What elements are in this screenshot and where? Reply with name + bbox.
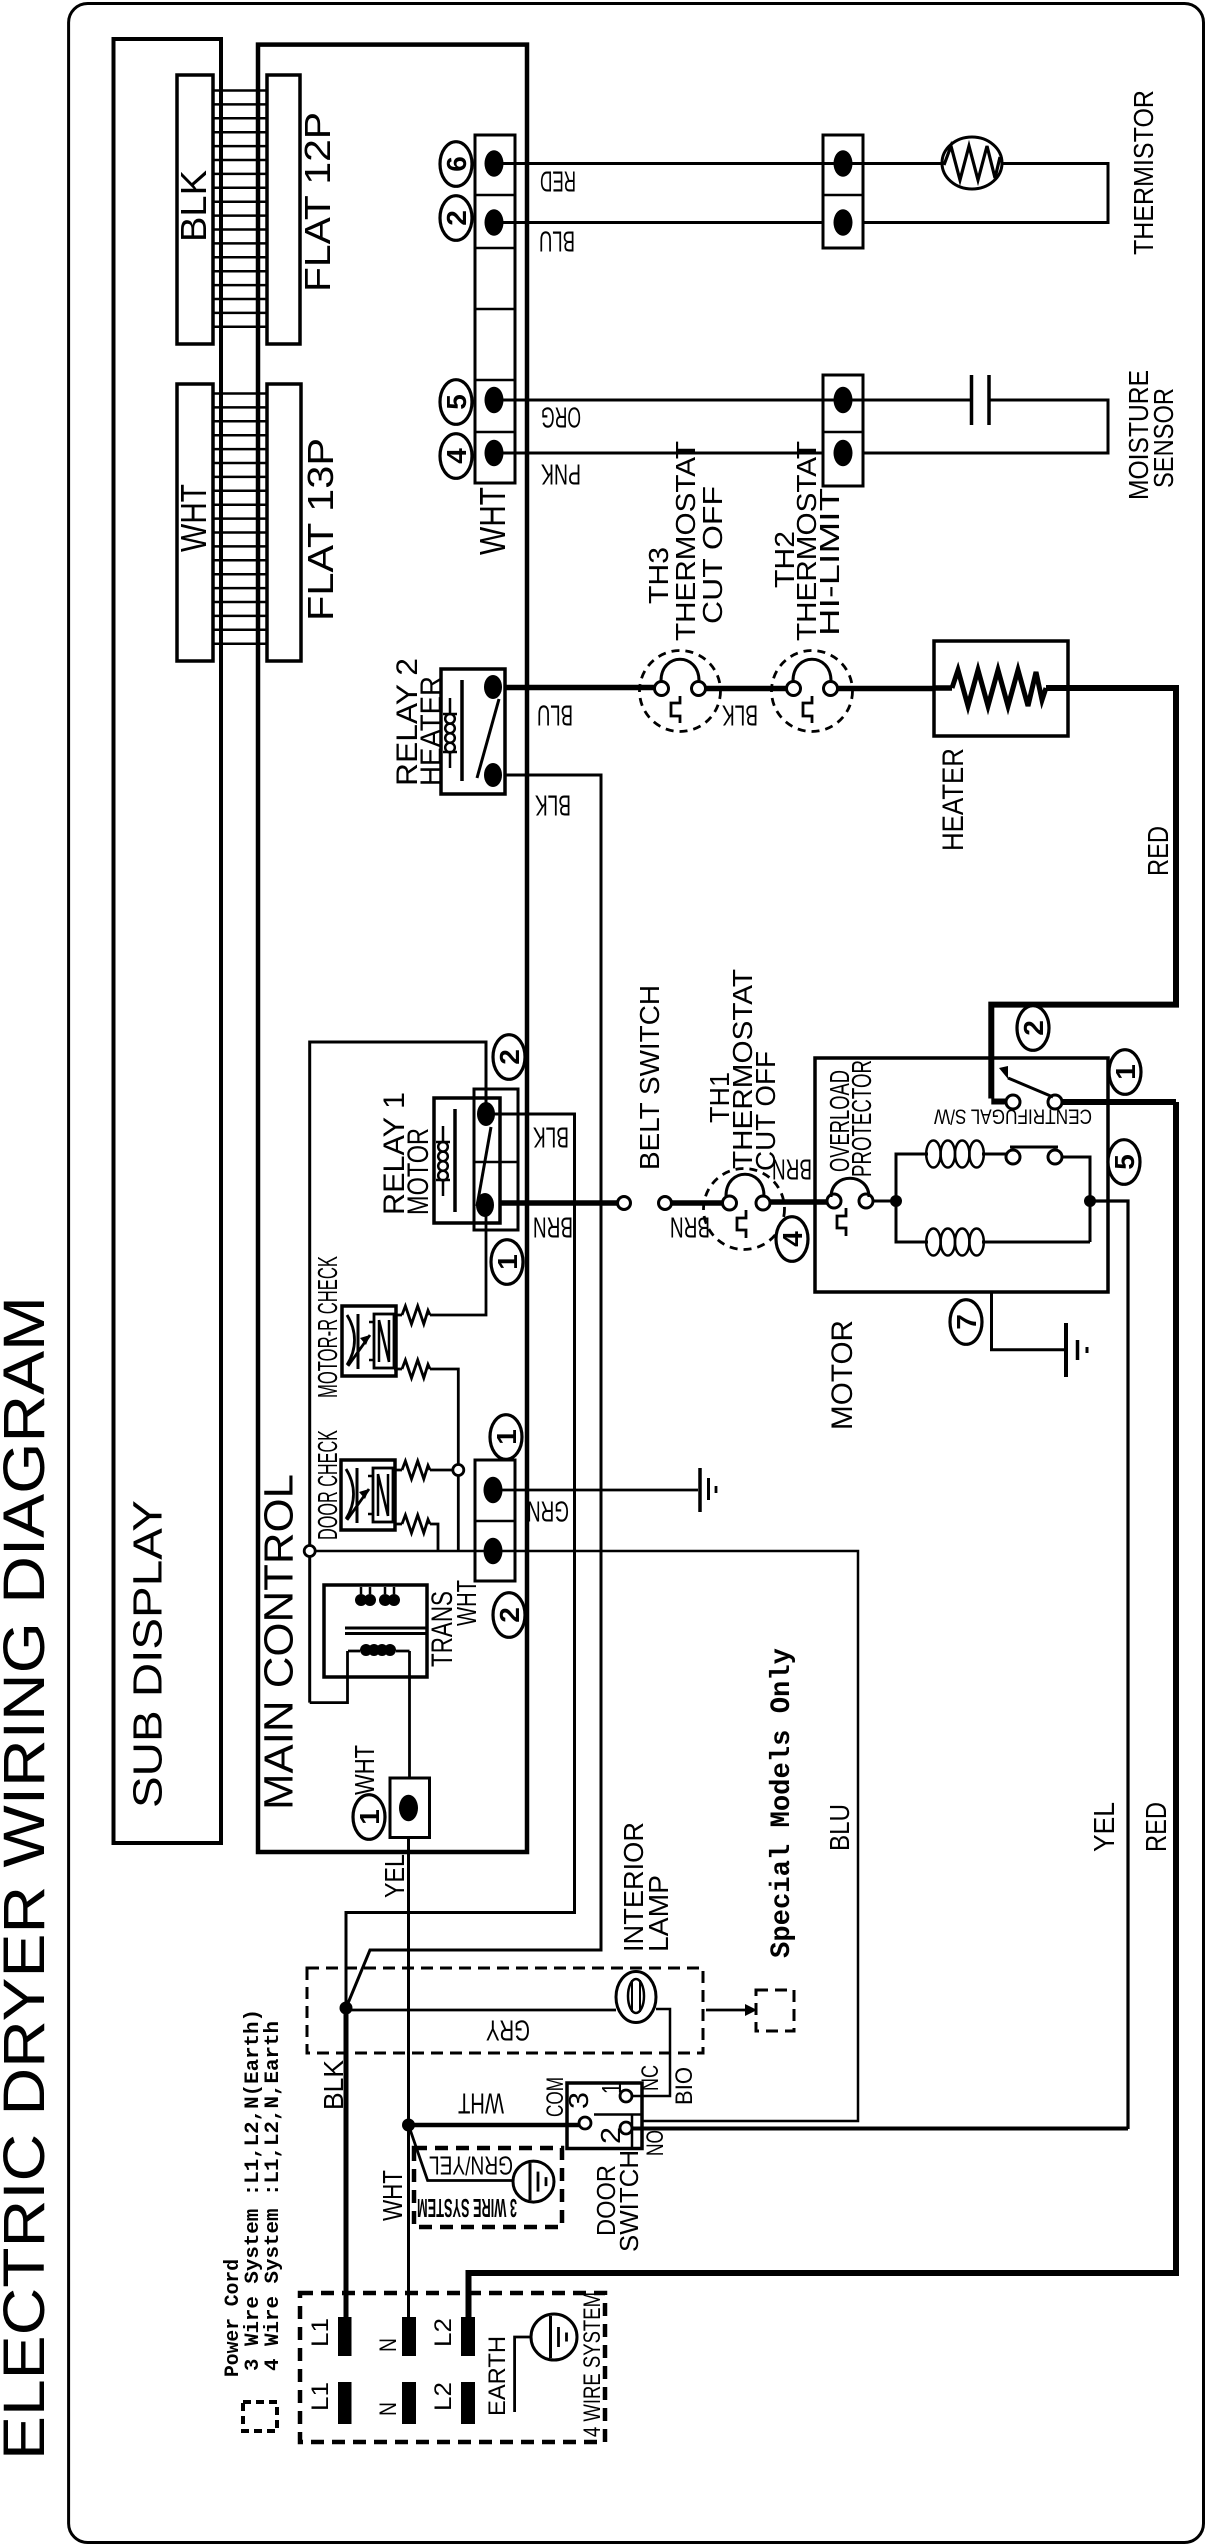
svg-text:HEATER: HEATER [937, 748, 970, 851]
svg-text:2: 2 [441, 210, 472, 226]
interior lamp INTERIOR LAMP [616, 1972, 656, 2023]
svg-text:BLK: BLK [173, 170, 214, 242]
connector GRN WHT strip [475, 1460, 515, 1581]
terminal N row1 [402, 2317, 416, 2356]
earth symbol 4 wire [531, 2314, 577, 2360]
svg-text:WHT: WHT [173, 484, 214, 552]
svg-text:TRANS: TRANS [426, 1591, 459, 1667]
svg-text:ELECTRIC DRYER WIRING DIAGRAM: ELECTRIC DRYER WIRING DIAGRAM [0, 1296, 57, 2460]
wire thermistor loop [863, 164, 1108, 223]
wire relay1 coil node up to main control bus [310, 1042, 486, 1703]
thermostat TH2 HI-LIMIT [772, 651, 853, 732]
relay RELAY 1 MOTOR [434, 1098, 500, 1223]
pin 1 motor [1109, 1050, 1141, 1095]
wire motor pin7 to ground [992, 1292, 1065, 1350]
MAIN CONTROL box [258, 45, 527, 1852]
thermostat TH1 CUT OFF [704, 1169, 785, 1250]
earth lead 4 wire [515, 2337, 531, 2412]
moisture sensor capacitor [972, 375, 990, 425]
svg-text:Special Models Only: Special Models Only [767, 1648, 798, 1958]
svg-text:L1: L1 [307, 2382, 334, 2411]
thermistor connector pair [823, 135, 863, 248]
svg-text:BLK: BLK [318, 2060, 349, 2110]
svg-text:RED: RED [1141, 1802, 1173, 1852]
svg-text:WHT: WHT [377, 2170, 408, 2221]
svg-text:BELT SWITCH: BELT SWITCH [634, 985, 665, 1170]
wire GRN to ground [500, 1489, 698, 1492]
svg-text:2: 2 [595, 2127, 626, 2144]
wire YEL WHT down to power cord N [407, 1838, 410, 2317]
svg-text:BLU: BLU [537, 699, 573, 731]
svg-text:2: 2 [1018, 1020, 1049, 1036]
wire BLK relay1 pin2 [346, 1114, 575, 2008]
SUB DISPLAY box [114, 39, 222, 1843]
motor start winding loop [896, 1201, 1090, 1242]
earth symbol 3 wire [513, 2161, 554, 2202]
pin 5 [440, 380, 472, 425]
svg-text:MOTOR: MOTOR [402, 1128, 435, 1215]
terminal L1 row1 [338, 2317, 352, 2356]
svg-text:NO: NO [642, 2130, 669, 2156]
3 wire system dashed box [414, 2148, 562, 2227]
pin 7 motor [950, 1300, 982, 1345]
svg-text:BRN: BRN [670, 1211, 710, 1243]
terminal L2 row2 [461, 2382, 475, 2424]
svg-text:RED: RED [540, 165, 576, 197]
transformer TRANS [324, 1585, 427, 1677]
pin 2 motor [1017, 1006, 1049, 1051]
svg-text:6: 6 [441, 156, 472, 172]
wire TH2 to heater [837, 686, 935, 692]
ground motor [1064, 1323, 1068, 1377]
connector WHT strip (main control edge) [475, 135, 515, 483]
svg-text:BLK: BLK [722, 699, 758, 731]
door switch DOOR SWITCH [567, 2083, 642, 2149]
wire GRN/YEL to earth (3 wire) [409, 2125, 514, 2181]
svg-text:N: N [375, 2402, 402, 2416]
wire BRN relay1 to belt switch [500, 1200, 617, 1206]
motor main winding loop [896, 1154, 1006, 1201]
pin 1 wht power [353, 1795, 385, 1840]
svg-text:WHT: WHT [458, 2087, 504, 2119]
svg-text:SUB DISPLAY: SUB DISPLAY [125, 1500, 171, 1808]
pin 4 TH1 [776, 1217, 808, 1262]
wire BRN belt switch to TH1 [672, 1200, 723, 1206]
wire trans secondary right to WHT pin1 [408, 1651, 411, 1778]
wire ORG pin5 to moisture sensor [502, 399, 971, 402]
svg-text:2: 2 [494, 1049, 525, 1065]
svg-text:BRN: BRN [533, 1211, 573, 1243]
centrifugal switch CENTRIFUGAL S/W [1006, 1095, 1020, 1109]
svg-text:COM: COM [542, 2077, 569, 2117]
svg-text:1: 1 [491, 1429, 522, 1445]
svg-text:BLU: BLU [539, 225, 575, 257]
terminal L1 row2 [338, 2382, 352, 2424]
svg-text:5: 5 [1109, 1154, 1140, 1170]
svg-text:SWITCH: SWITCH [614, 2150, 644, 2252]
svg-text:HEATER: HEATER [415, 676, 448, 786]
thermistor [942, 137, 1002, 189]
svg-text:HI-LIMIT: HI-LIMIT [814, 488, 845, 636]
wire BLU pin2 return [502, 221, 823, 224]
svg-text:1: 1 [596, 2083, 627, 2094]
svg-text:1: 1 [1110, 1064, 1141, 1080]
svg-text:L1: L1 [307, 2318, 334, 2347]
svg-text:1: 1 [492, 1254, 523, 1270]
svg-text:L2: L2 [430, 2318, 457, 2347]
overload protector [827, 1194, 841, 1208]
svg-text:THERMISTOR: THERMISTOR [1128, 90, 1159, 255]
wire trans secondary left [310, 1651, 348, 1703]
svg-text:MOTOR: MOTOR [826, 1320, 859, 1430]
node BLK junction dot [340, 2002, 353, 2015]
svg-text:FLAT 12P: FLAT 12P [297, 112, 338, 292]
wire RED down right side [469, 1102, 1177, 2317]
special models dashed box [756, 1990, 794, 2031]
svg-text:BIO: BIO [671, 2067, 698, 2105]
pin 6 [440, 142, 472, 187]
connector WHT pin1 box [390, 1778, 430, 1838]
svg-text:RED: RED [1143, 826, 1175, 876]
wire BLU special models net [315, 1551, 858, 2121]
relay1 connector strip [474, 1089, 518, 1230]
svg-text:4 WIRE SYSTEM: 4 WIRE SYSTEM [579, 2292, 606, 2437]
ribbon cable FLAT 13P (WHT) [177, 384, 213, 661]
svg-text:4 Wire System :L1,L2,N,Earth: 4 Wire System :L1,L2,N,Earth [262, 2021, 285, 2371]
svg-text:WHT: WHT [472, 487, 513, 555]
wire WHT to door switch COM [409, 2123, 580, 2128]
centrifugal start contact [1006, 1150, 1020, 1164]
wire RED heater to motor (right side) [991, 688, 1176, 1099]
svg-text:ORG: ORG [541, 401, 581, 433]
resistor door check 1 [394, 1469, 453, 1472]
svg-text:1: 1 [354, 1809, 385, 1825]
wire BLK TH3 to TH2 [706, 686, 788, 692]
moisture sensor connector pair [823, 375, 863, 486]
svg-text:CUT OFF: CUT OFF [697, 486, 728, 624]
svg-text:WHT: WHT [349, 1745, 380, 1795]
svg-text:4: 4 [441, 448, 472, 464]
resistor motor-r 1 [394, 1207, 486, 1315]
belt switch BELT SWITCH [618, 1197, 631, 1210]
pin 1 grn [490, 1415, 522, 1460]
svg-text:BRN: BRN [772, 1153, 812, 1185]
svg-text:PROTECTOR: PROTECTOR [846, 1060, 877, 1177]
wire YEL motor pin5 down to door switch NO [1090, 1201, 1128, 2129]
wire overload to winding node [873, 1200, 896, 1203]
node junction circle door check [453, 1465, 464, 1476]
node WHT junction dot [402, 2119, 415, 2132]
resistor motor-r 2 [394, 1369, 458, 1464]
wire moisture loop [863, 400, 1108, 453]
pin 2 wht [493, 1593, 525, 1638]
pin 4 [440, 434, 472, 479]
wire BLK down to power cord L1 [344, 2008, 349, 2317]
svg-text:MAIN CONTROL: MAIN CONTROL [256, 1474, 302, 1810]
relay RELAY 2 HEATER [441, 669, 505, 794]
interior lamp dashed box [307, 1968, 703, 2053]
svg-text:N: N [375, 2338, 402, 2352]
svg-text:SENSOR: SENSOR [1148, 388, 1179, 488]
svg-text:FLAT 13P: FLAT 13P [300, 438, 341, 621]
legend dashed square [243, 2402, 277, 2431]
svg-text:CENTRIFUGAL S/W: CENTRIFUGAL S/W [934, 1104, 1092, 1127]
motor MOTOR box [815, 1058, 1108, 1292]
svg-text:4: 4 [777, 1231, 808, 1247]
svg-text:LAMP: LAMP [643, 1875, 674, 1952]
thermostat TH3 CUT OFF [640, 651, 721, 732]
terminal N row2 [402, 2382, 416, 2424]
pin 1 relay1 [491, 1240, 523, 1285]
svg-text:NC: NC [637, 2065, 664, 2091]
svg-text:BLU: BLU [824, 1804, 855, 1851]
wire thick centrifugal to RED [991, 1099, 1006, 1105]
resistor door check 2 [394, 1524, 438, 1551]
svg-text:L2: L2 [430, 2382, 457, 2411]
wire RED pin6 to thermistor [502, 162, 942, 165]
wire BLK relay2 lower contact down [346, 775, 601, 2008]
wire GRY to interior lamp [350, 2009, 616, 2012]
pin 2 [440, 196, 472, 241]
svg-text:2: 2 [494, 1607, 525, 1623]
svg-text:YEL: YEL [1089, 1802, 1121, 1852]
heater HEATER [934, 641, 1068, 736]
svg-text:GRN: GRN [527, 1495, 569, 1527]
svg-text:BLK: BLK [533, 1121, 569, 1153]
ground main control [698, 1468, 702, 1512]
pin 5 motor [1108, 1140, 1140, 1185]
optocoupler DOOR CHECK [341, 1460, 395, 1530]
wire BLU relay2 to TH3 [505, 685, 654, 691]
svg-text:YEL: YEL [379, 1854, 410, 1898]
ribbon cable FLAT 12P (BLK) [177, 75, 213, 344]
svg-text:5: 5 [441, 394, 472, 410]
svg-text:DOOR CHECK: DOOR CHECK [312, 1430, 343, 1540]
pin 2 relay1 [493, 1035, 525, 1080]
svg-text:EARTH: EARTH [484, 2336, 511, 2416]
svg-text:GRY: GRY [486, 2014, 530, 2046]
svg-text:BLK: BLK [535, 789, 571, 821]
power cord dashed box [300, 2293, 605, 2442]
svg-text:7: 7 [951, 1314, 982, 1330]
wire PNK pin4 return [502, 452, 823, 455]
terminal L2 row1 [461, 2317, 475, 2356]
node open circle main control [304, 1546, 315, 1557]
wire door switch NO to YEL [632, 2127, 1128, 2131]
wire lamp to door switch NC [633, 2009, 671, 2096]
special models arrow [706, 2009, 745, 2012]
optocoupler MOTOR-R CHECK [342, 1306, 396, 1376]
svg-text:GRN/YEL: GRN/YEL [429, 2151, 513, 2181]
svg-text:3 WIRE SYSTEM: 3 WIRE SYSTEM [417, 2193, 517, 2223]
svg-text:PNK: PNK [541, 458, 581, 490]
svg-text:MOTOR-R CHECK: MOTOR-R CHECK [312, 1256, 343, 1398]
wire BRN TH1 to motor overload [770, 1199, 827, 1205]
